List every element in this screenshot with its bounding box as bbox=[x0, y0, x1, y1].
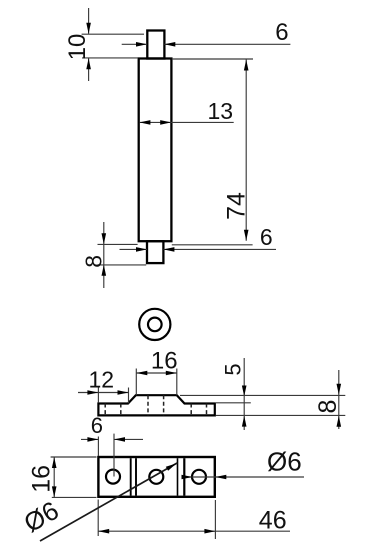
svg-text:16: 16 bbox=[151, 348, 178, 375]
svg-text:Ø6: Ø6 bbox=[267, 446, 302, 476]
svg-text:10: 10 bbox=[64, 34, 91, 61]
svg-text:6: 6 bbox=[91, 413, 103, 438]
svg-text:6: 6 bbox=[275, 19, 288, 46]
svg-text:5: 5 bbox=[220, 363, 245, 375]
svg-text:74: 74 bbox=[222, 192, 250, 220]
svg-text:16: 16 bbox=[28, 465, 56, 493]
svg-text:12: 12 bbox=[89, 366, 115, 392]
svg-text:6: 6 bbox=[260, 224, 273, 250]
svg-text:13: 13 bbox=[208, 98, 234, 124]
svg-text:8: 8 bbox=[80, 255, 106, 268]
svg-text:46: 46 bbox=[259, 506, 287, 534]
svg-text:8: 8 bbox=[314, 400, 342, 414]
